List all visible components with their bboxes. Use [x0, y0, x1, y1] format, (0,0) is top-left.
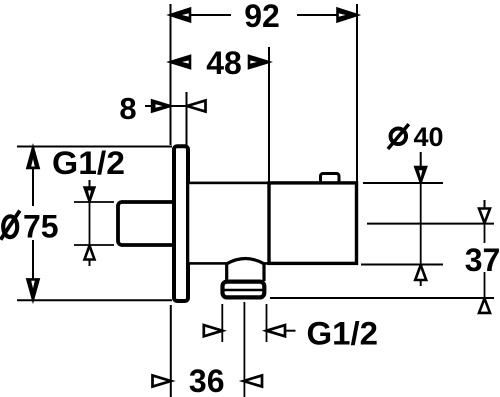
dimension 36 right arrow	[244, 375, 263, 386]
svg-text:92: 92	[244, 0, 280, 34]
dimension 8 left arrow	[152, 100, 171, 111]
dimension D75 line	[32, 148, 34, 299]
wall plane extension line lower (x=170)	[170, 305, 172, 397]
dimension 48 left arrow	[171, 56, 191, 68]
dimension D75 top arrow	[27, 148, 38, 169]
dimension 92 line	[189, 14, 338, 16]
center axis line right	[367, 223, 494, 225]
outlet center extension line	[243, 302, 245, 397]
G1/2 bottom label	[307, 316, 379, 352]
dimension D75 bottom arrow	[27, 279, 38, 300]
flange top extension line	[17, 146, 172, 148]
D40 dimension line	[420, 152, 422, 286]
svg-text:8: 8	[119, 91, 136, 126]
G1/2 stub bottom arrow	[85, 246, 95, 260]
G1/2 stub dimension line	[89, 180, 91, 266]
outlet spout with dome	[227, 259, 264, 282]
svg-text:75: 75	[23, 209, 59, 245]
svg-text:G1/2: G1/2	[307, 316, 379, 352]
G1/2 outlet dimension right arrow	[267, 325, 296, 336]
dimension 48 right arrow	[249, 56, 269, 68]
extension line: wall plane (x=170) upper	[170, 4, 172, 145]
dimension 8 line	[145, 105, 187, 107]
extension line: handle right face (x=357)	[356, 4, 358, 183]
flange bottom extension line	[17, 299, 172, 301]
svg-text:37: 37	[465, 242, 500, 278]
dimension 92 left arrow	[171, 9, 191, 22]
inlet stub G1/2	[118, 202, 176, 245]
svg-text:G1/2: G1/2	[52, 145, 125, 181]
outlet left extension line	[221, 304, 223, 342]
G1/2 outlet dimension left arrow	[204, 325, 223, 336]
dimension 8 right arrow	[187, 100, 206, 111]
outlet right extension line	[266, 304, 268, 342]
extension line: flange front face (x=186.5)	[186, 92, 188, 145]
extension line: valve divider (x=269)	[268, 47, 270, 183]
dimension 92 right arrow	[338, 9, 358, 22]
dimension 36 text	[189, 363, 225, 397]
nut bottom extension line	[270, 297, 494, 299]
dimension 8 text	[119, 91, 136, 126]
svg-text:36: 36	[189, 363, 225, 397]
dimension 37 text	[465, 242, 500, 278]
valve handle body	[269, 183, 357, 264]
dimension 37 line	[484, 200, 486, 298]
stub bottom extension line	[74, 244, 114, 246]
svg-text:40: 40	[414, 122, 444, 152]
G1/2 stub top arrow	[85, 188, 95, 202]
D40 top extension line	[363, 182, 443, 184]
D40 bottom extension line	[361, 264, 443, 266]
dimension 37 top arrow	[479, 209, 490, 224]
valve neck body	[188, 183, 269, 264]
D40 text	[388, 122, 444, 152]
dimension 92 text	[244, 0, 280, 34]
handle knob (stop button)	[321, 174, 340, 188]
dimension D75 text	[1, 209, 59, 245]
svg-text:48: 48	[206, 45, 242, 81]
dimension 37 bottom arrow	[479, 298, 490, 313]
outlet nut	[222, 282, 265, 298]
wall flange plate	[174, 146, 188, 301]
D40 top arrow	[415, 167, 426, 183]
D40 bottom arrow	[415, 265, 426, 280]
G1/2 top label	[52, 145, 125, 181]
stub top extension line	[74, 201, 114, 203]
dimension 48 text	[206, 45, 242, 81]
dimension 36 left arrow	[153, 375, 172, 386]
